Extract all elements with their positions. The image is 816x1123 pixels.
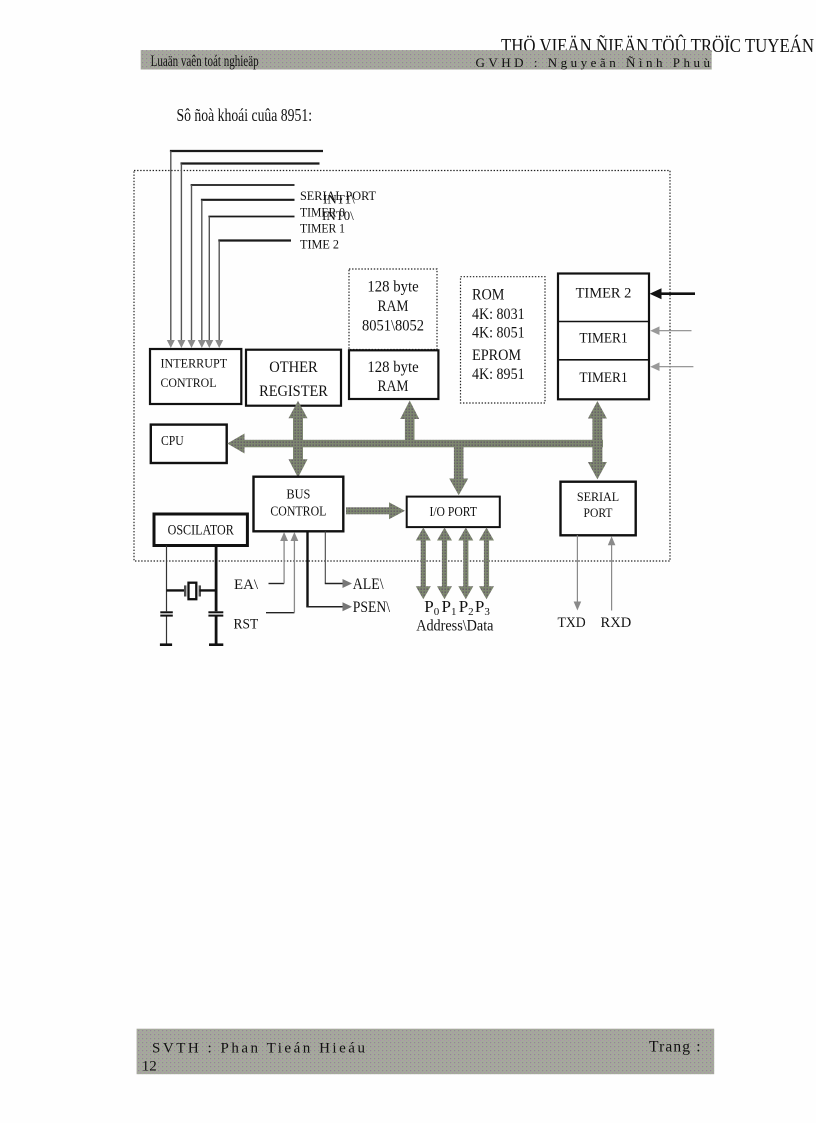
box CPU [151, 425, 227, 463]
svg-text:Address\Data: Address\Data [416, 617, 493, 634]
arrow into TIMER1 (gray, from right) [650, 326, 691, 335]
wire elbow 4 horizontal (timer 0) [201, 199, 295, 201]
svg-text:P0: P0 [424, 597, 439, 618]
svg-text:ALE\: ALE\ [353, 576, 384, 593]
interrupt input arrowheads [167, 340, 223, 348]
box SERIAL PORT [561, 482, 636, 536]
wire elbow 1 vertical [170, 151, 172, 341]
wire elbow 5 horizontal (timer 1) [208, 216, 294, 218]
RXD input arrow [608, 536, 616, 610]
svg-text:OSCILATOR: OSCILATOR [168, 523, 234, 539]
svg-text:RAM: RAM [378, 378, 409, 395]
svg-text:TIMER1: TIMER1 [579, 331, 627, 347]
svg-text:4K: 8031: 4K: 8031 [472, 306, 525, 323]
arrow into TIMER 2 (black, from right) [650, 288, 695, 299]
svg-text:Trang :: Trang : [649, 1039, 701, 1056]
box OSCILATOR [154, 514, 247, 546]
bus branch to TIMER stack / SERIAL PORT (double arrow) [588, 401, 607, 479]
svg-text:ROM: ROM [472, 287, 505, 304]
footer gray bar [137, 1029, 715, 1075]
svg-text:P2: P2 [459, 597, 474, 618]
svg-text:INTERRUPT: INTERRUPT [161, 357, 228, 371]
capacitor C1 [160, 612, 173, 615]
box ROM / EPROM (dotted) [461, 277, 546, 403]
svg-text:SERIAL: SERIAL [577, 490, 619, 504]
port P2 double arrow [458, 528, 473, 600]
svg-text:4K: 8051: 4K: 8051 [472, 325, 525, 342]
svg-text:TIMER 2: TIMER 2 [576, 286, 632, 302]
EA\ input wire and arrow into BUS CONTROL [269, 532, 289, 584]
svg-text:CONTROL: CONTROL [161, 376, 217, 390]
ground bar left [160, 643, 172, 646]
PSEN\ output wire [306, 531, 352, 611]
port P1 double arrow [437, 528, 452, 600]
arrow BUS CONTROL to I/O PORT [346, 502, 405, 519]
oscillator left lead (thin) [166, 546, 168, 612]
svg-text:EPROM: EPROM [472, 347, 521, 364]
svg-text:CPU: CPU [161, 433, 184, 448]
port P0 double arrow [416, 528, 431, 600]
svg-text:TXD: TXD [558, 615, 586, 631]
box OTHER REGISTER [246, 350, 341, 406]
box 128 byte RAM 8051\8052 (dotted) [349, 269, 437, 350]
svg-text:128 byte: 128 byte [367, 279, 418, 296]
svg-text:RXD: RXD [601, 615, 632, 631]
wire elbow 3 horizontal (serial port) [191, 184, 295, 186]
box I/O PORT [407, 497, 500, 527]
header gray bar [141, 50, 712, 69]
svg-text:4K: 8951: 4K: 8951 [472, 366, 525, 383]
wire elbow 3 vertical [191, 185, 193, 341]
svg-text:Luaän vaên toát nghieäp: Luaän vaên toát nghieäp [151, 53, 259, 70]
wire elbow 1 horizontal (INT1) [170, 150, 323, 152]
svg-text:PORT: PORT [584, 506, 613, 520]
labels P0 P1 P2 P3 [424, 597, 490, 618]
svg-text:P3: P3 [475, 597, 490, 618]
arrow into lower TIMER1 (gray, from right) [650, 362, 693, 371]
svg-text:RST: RST [234, 616, 259, 632]
svg-text:Sô ñoà khoái cuûa 8951:: Sô ñoà khoái cuûa 8951: [177, 105, 313, 125]
svg-text:8051\8052: 8051\8052 [362, 318, 424, 335]
box TIMER stack [558, 274, 649, 400]
bus branch down to I/O PORT [449, 444, 468, 495]
box 128 byte RAM (solid) [349, 350, 438, 399]
wire elbow 6 vertical [218, 241, 220, 342]
svg-text:EA\: EA\ [234, 577, 259, 593]
svg-text:P1: P1 [442, 597, 457, 618]
svg-text:PSEN\: PSEN\ [353, 599, 391, 616]
main data bus (thick gray) [227, 434, 603, 454]
svg-text:TIMER1: TIMER1 [579, 370, 627, 386]
svg-text:128 byte: 128 byte [367, 359, 418, 376]
svg-text:12: 12 [142, 1059, 157, 1075]
box BUS CONTROL [254, 477, 344, 532]
wire elbow 6 horizontal (time 2) [218, 239, 291, 241]
bus branch up to 128 byte RAM [400, 401, 419, 443]
wire elbow 2 horizontal (INT0) [181, 162, 320, 164]
wire elbow 4 vertical [201, 200, 203, 341]
svg-text:TIMER 1: TIMER 1 [300, 221, 345, 236]
RST input wire and arrow into BUS CONTROL [266, 532, 298, 613]
wire elbow 5 vertical [208, 217, 210, 342]
svg-text:TIME 2: TIME 2 [300, 237, 339, 252]
outer dashed block-diagram frame [134, 171, 670, 562]
svg-text:BUS: BUS [286, 487, 310, 502]
svg-text:I/O PORT: I/O PORT [429, 504, 477, 519]
ground bar right [209, 643, 223, 646]
port P3 double arrow [479, 528, 494, 600]
oscillator right lead (thick) [215, 546, 218, 612]
box INTERRUPT CONTROL [150, 349, 241, 404]
svg-text:RAM: RAM [378, 298, 409, 315]
svg-text:CONTROL: CONTROL [270, 504, 326, 519]
svg-text:OTHER: OTHER [269, 359, 318, 376]
TXD output arrow [574, 535, 582, 610]
bus branch to OTHER REGISTER / BUS CONTROL (double arrow) [289, 401, 308, 478]
wire elbow 2 vertical [180, 164, 182, 342]
crystal X1 [167, 583, 217, 600]
svg-text:REGISTER: REGISTER [259, 383, 328, 400]
capacitor C2 [208, 612, 223, 615]
ALE\ output wire [325, 531, 352, 588]
